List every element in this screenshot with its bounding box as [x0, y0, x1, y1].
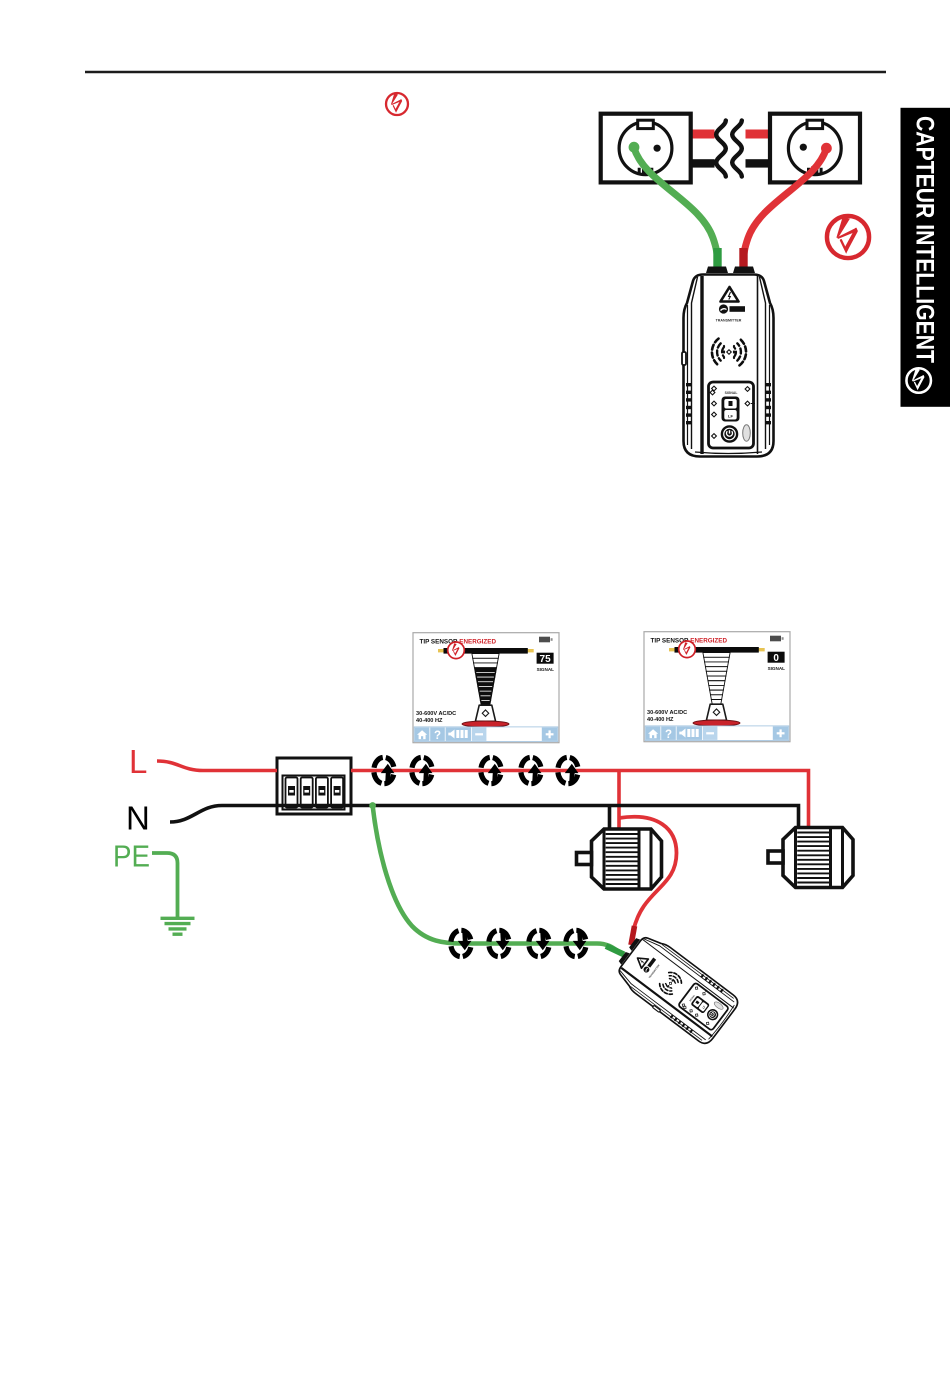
current probe loop T3 on wire L	[481, 757, 502, 783]
wire L red bus	[351, 771, 809, 828]
svg-text:30-600V AC/DC: 30-600V AC/DC	[647, 710, 687, 716]
svg-text:LF: LF	[728, 413, 733, 418]
svg-text:PE: PE	[113, 839, 150, 874]
transmitter device U1	[682, 267, 774, 457]
wire bars between sockets	[691, 130, 771, 139]
motor M2	[768, 828, 853, 888]
svg-text:30-600V AC/DC: 30-600V AC/DC	[416, 711, 456, 717]
current probe loop T2 on wire L	[412, 757, 433, 783]
current probe loop T1 on wire L	[374, 757, 395, 783]
svg-text:40-400 HZ: 40-400 HZ	[416, 718, 443, 724]
green test lead	[634, 148, 718, 264]
PE wire + ground	[152, 853, 178, 917]
current probe loop T4 on wire L	[521, 757, 542, 783]
svg-text:CAPTEUR INTELLIGENT: CAPTEUR INTELLIGENT	[911, 116, 939, 363]
current probe loop T5 on wire L	[558, 757, 579, 783]
sidebar CAPTEUR INTELLIGENT	[901, 108, 950, 407]
right wall socket	[770, 114, 860, 183]
svg-text:75: 75	[540, 654, 552, 665]
svg-text:L: L	[129, 743, 147, 780]
svg-text:SIGNAL: SIGNAL	[768, 666, 786, 671]
svg-text:40-400 HZ: 40-400 HZ	[647, 717, 674, 723]
current probe loop S3 on sense wire	[529, 930, 550, 956]
svg-text:N: N	[126, 800, 150, 837]
sidebar bolt icon	[906, 368, 930, 392]
warning bolt icon W2	[827, 216, 869, 258]
motor M1	[577, 829, 662, 889]
svg-text:SIGNAL: SIGNAL	[725, 391, 738, 395]
break squiggle left	[716, 121, 726, 177]
warning bolt icon W1	[386, 93, 408, 115]
LCD screen 0	[644, 632, 790, 742]
left wall socket	[601, 114, 691, 183]
wire N black	[170, 806, 799, 828]
red wire motor M1 to receiver	[619, 817, 677, 930]
breaker box CB1 (4-pole)	[277, 758, 351, 814]
svg-text:SIGNAL: SIGNAL	[537, 667, 555, 672]
svg-text:?: ?	[434, 730, 441, 742]
header rule	[85, 71, 886, 74]
current probe loop S4 on sense wire	[566, 930, 587, 956]
receiver device U2	[609, 928, 741, 1048]
LCD screen 75	[413, 633, 559, 743]
red test lead	[744, 148, 827, 264]
svg-text:?: ?	[665, 729, 672, 741]
svg-text:0: 0	[773, 653, 779, 664]
svg-text:TRANSMITTER: TRANSMITTER	[716, 319, 742, 323]
branch black to motor M1	[608, 806, 612, 830]
current probe loop S2 on sense wire	[489, 930, 510, 956]
wire L red	[157, 761, 277, 771]
current probe loop S1 on sense wire	[451, 930, 472, 956]
branch red to motor M1	[617, 771, 621, 830]
green sense wire	[373, 806, 620, 953]
break squiggle right	[732, 121, 742, 177]
